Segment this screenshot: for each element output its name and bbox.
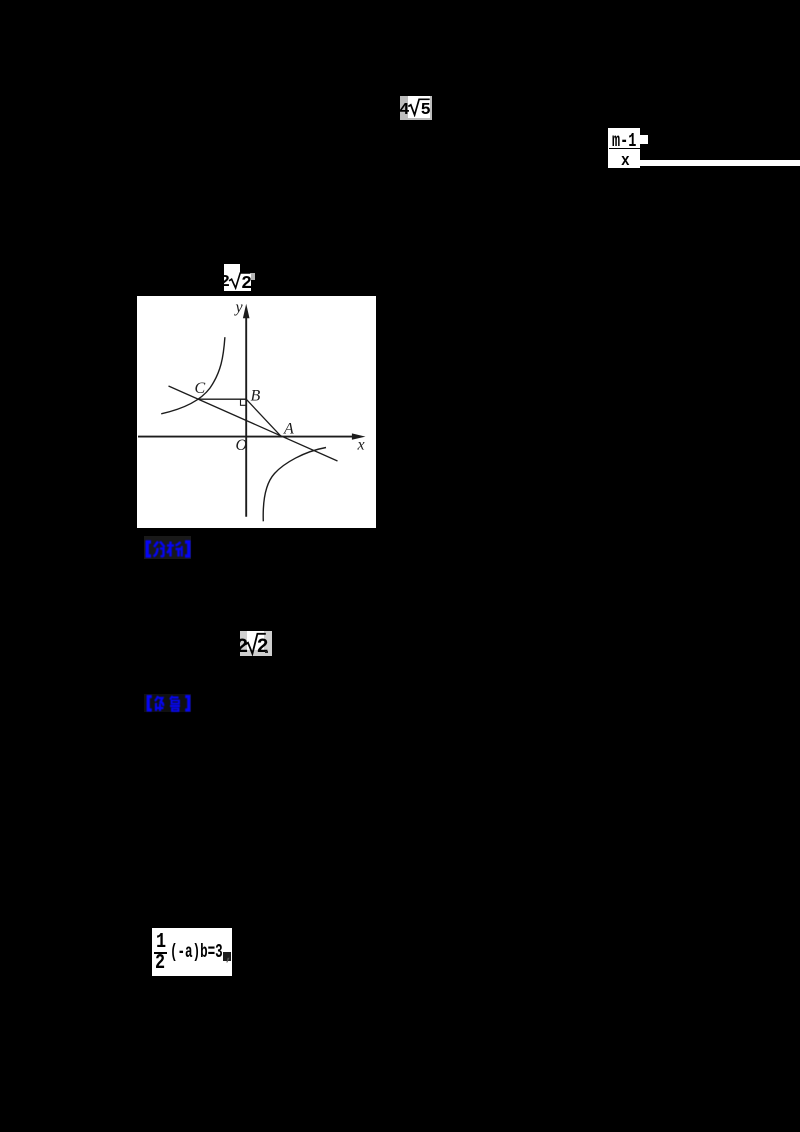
- svg-text:C: C: [194, 380, 205, 397]
- segment B-A: [246, 399, 281, 436]
- formula 2√2 above figure: [224, 264, 240, 272]
- formula 2√2 mid-page: [240, 631, 272, 656]
- y-axis arrowhead: [242, 304, 249, 319]
- long white underline strip: [640, 160, 800, 167]
- graph figure box: [137, 296, 376, 528]
- line through C and A: [168, 386, 337, 461]
- svg-text:B: B: [250, 388, 260, 405]
- notch right of m-1: [640, 135, 648, 143]
- svg-text:x: x: [356, 437, 364, 454]
- hyperbola lower-right branch: [263, 448, 326, 522]
- hyperbola upper-left branch: [161, 337, 225, 414]
- formula (m-1)/x with blank line strip: [608, 128, 640, 169]
- formula 4√5: [400, 96, 432, 120]
- svg-text:O: O: [235, 437, 247, 454]
- segment C-B: [198, 398, 245, 400]
- svg-text:y: y: [233, 299, 243, 316]
- x-axis arrowhead: [351, 433, 365, 439]
- x-axis: [138, 436, 359, 438]
- comma on dark square: [223, 952, 231, 961]
- y-axis: [245, 316, 247, 517]
- right-angle mark at B: [240, 399, 246, 405]
- svg-text:A: A: [283, 421, 294, 438]
- blue label 【解答】: [144, 694, 191, 713]
- blue label 【分析】: [144, 536, 192, 559]
- formula (1/2)(-a)b=3,: [152, 928, 232, 976]
